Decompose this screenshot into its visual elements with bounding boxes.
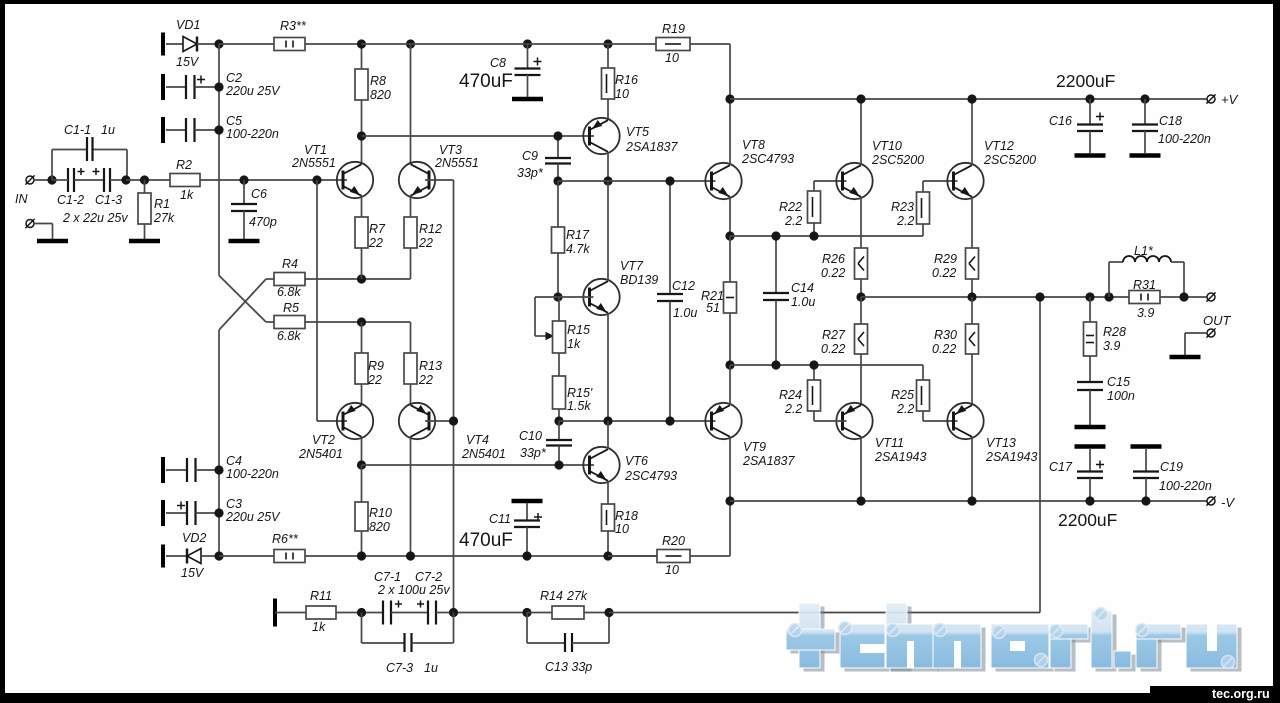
- terminal bar R11: [273, 599, 277, 627]
- node VAS lower: [603, 416, 612, 425]
- svg-text:C1-3: C1-3: [95, 193, 122, 207]
- capacitor C2: [166, 86, 186, 88]
- svg-text:2SC4793: 2SC4793: [741, 152, 794, 166]
- resistor R30: [971, 297, 973, 324]
- upper driver emitter wire: [730, 235, 923, 237]
- resistor R18: [602, 504, 615, 531]
- node VT10 collector: [856, 94, 865, 103]
- node VT12 collector: [967, 94, 976, 103]
- svg-text:VT4: VT4: [466, 433, 489, 447]
- capacitor C12: [669, 181, 671, 294]
- svg-text:VD2: VD2: [182, 531, 206, 545]
- svg-text:R16: R16: [615, 73, 638, 87]
- svg-text:1k: 1k: [567, 337, 581, 351]
- svg-text:10: 10: [615, 87, 629, 101]
- svg-text:R19: R19: [662, 22, 685, 36]
- transistor VT6: [583, 447, 619, 483]
- svg-text:27k: 27k: [566, 589, 588, 603]
- svg-text:820: 820: [370, 88, 391, 102]
- node feedback takeoff: [1035, 292, 1044, 301]
- svg-text:2SC5200: 2SC5200: [871, 153, 924, 167]
- capacitor C19: [1131, 444, 1162, 449]
- svg-text:C7-1: C7-1: [374, 570, 401, 584]
- svg-text:2N5401: 2N5401: [461, 447, 506, 461]
- svg-text:VT10: VT10: [872, 139, 902, 153]
- resistor R10: [361, 465, 363, 502]
- node R15' bottom: [554, 416, 563, 425]
- svg-text:R1: R1: [154, 197, 170, 211]
- wire R8 top: [361, 44, 363, 69]
- svg-text:C12: C12: [672, 279, 695, 293]
- node R18 bottom: [603, 551, 612, 560]
- svg-text:15V: 15V: [176, 55, 200, 69]
- svg-text:VD1: VD1: [176, 18, 200, 32]
- svg-text:R20: R20: [662, 534, 685, 548]
- wire R16 to VT5: [607, 99, 609, 120]
- svg-text:C19: C19: [1160, 460, 1183, 474]
- svg-text:R31: R31: [1133, 278, 1156, 292]
- svg-text:22: 22: [367, 373, 382, 387]
- transistor VT11: [836, 403, 872, 439]
- capacitor C1-3: [103, 168, 105, 192]
- capacitor C7-2: [427, 601, 429, 625]
- svg-text:2SA1837: 2SA1837: [742, 454, 795, 468]
- svg-text:R14: R14: [540, 589, 563, 603]
- wire R13 to VT4: [410, 384, 412, 405]
- wire VT12 emitter: [971, 197, 973, 249]
- svg-text:VT2: VT2: [312, 433, 335, 447]
- node VT2 collector: [357, 460, 366, 469]
- wire VT7 collector: [607, 181, 609, 281]
- node R8 top: [357, 39, 366, 48]
- node C7 left: [357, 608, 366, 617]
- node VT4 collector bottom: [406, 551, 415, 560]
- svg-text:2SA1943: 2SA1943: [985, 450, 1037, 464]
- capacitor C17: [1075, 444, 1106, 449]
- terminal bar C4: [161, 457, 165, 483]
- transistor VT13: [947, 403, 983, 439]
- resistor R14: [552, 606, 584, 619]
- svg-text:2SA1943: 2SA1943: [874, 450, 926, 464]
- terminal bar VD1: [161, 33, 165, 56]
- svg-text:27k: 27k: [153, 211, 175, 225]
- svg-text:R6**: R6**: [272, 532, 299, 546]
- svg-text:C7-3: C7-3: [386, 661, 413, 675]
- node R10 bottom: [357, 551, 366, 560]
- wire VT7 base: [558, 296, 594, 298]
- svg-text:22: 22: [368, 236, 383, 250]
- svg-text:2.2: 2.2: [784, 402, 802, 416]
- svg-text:100n: 100n: [1107, 389, 1135, 403]
- capacitor C1-2: [67, 168, 69, 192]
- wire VT9 collector: [729, 437, 731, 502]
- svg-text:2SC4793: 2SC4793: [624, 469, 677, 483]
- capacitor C13 bridge: [526, 613, 528, 644]
- transistor VT9: [705, 403, 741, 439]
- svg-text:22: 22: [418, 373, 433, 387]
- svg-text:C6: C6: [251, 187, 267, 201]
- svg-text:220u 25V: 220u 25V: [225, 510, 281, 524]
- capacitor C7-3 bridge: [361, 613, 363, 644]
- svg-text:2N5551: 2N5551: [291, 156, 336, 170]
- wire R9 to VT2: [361, 384, 363, 405]
- node VT7 base: [553, 292, 562, 301]
- node input-a: [47, 175, 56, 184]
- node R7 bottom: [357, 274, 366, 283]
- svg-text:R11: R11: [310, 589, 332, 603]
- svg-text:2SA1837: 2SA1837: [625, 140, 678, 154]
- svg-text:2200uF: 2200uF: [1056, 71, 1115, 91]
- wire VT8 collector: [729, 99, 731, 165]
- wire VT3 emitter: [410, 196, 412, 218]
- capacitor C14: [775, 236, 777, 293]
- node C10 bottom: [554, 460, 563, 469]
- transistor VT7: [583, 279, 619, 315]
- svg-text:0.22: 0.22: [821, 266, 845, 280]
- svg-text:1.5k: 1.5k: [567, 399, 591, 413]
- capacitor C1-1 bridge: [51, 150, 53, 181]
- transistor VT5: [583, 118, 619, 154]
- svg-text:VT12: VT12: [984, 139, 1014, 153]
- svg-text:C18: C18: [1159, 114, 1182, 128]
- node R22 bottom: [809, 231, 818, 240]
- ground OUT: [1170, 355, 1201, 360]
- svg-text:100-220n: 100-220n: [1159, 479, 1212, 493]
- wire VT12 collector: [971, 99, 973, 165]
- wire VT4 collector: [410, 437, 412, 557]
- transistor VT12: [947, 163, 983, 199]
- wire VT10 emitter: [860, 197, 862, 249]
- svg-text:R2: R2: [176, 158, 192, 172]
- node R16 top: [603, 39, 612, 48]
- resistor R12: [404, 217, 417, 248]
- svg-text:VT3: VT3: [439, 143, 462, 157]
- +V rail: [730, 98, 1207, 100]
- node VT4 base: [449, 416, 458, 425]
- resistor R24: [813, 365, 815, 380]
- svg-text:1.0u: 1.0u: [791, 295, 815, 309]
- wire input to VT2 base: [316, 180, 318, 421]
- node VAS upper: [603, 176, 612, 185]
- node VT8 collector rail: [725, 94, 734, 103]
- node output rail mid: [967, 292, 976, 301]
- svg-text:2N5551: 2N5551: [434, 156, 479, 170]
- resistor R3: [219, 43, 274, 45]
- trimmer R15 wiper: [535, 296, 558, 298]
- svg-text:C9: C9: [522, 149, 538, 163]
- capacitor C8: [527, 44, 529, 69]
- svg-text:BD139: BD139: [620, 273, 658, 287]
- resistor R5: [274, 316, 305, 329]
- svg-text:100-220n: 100-220n: [226, 467, 279, 481]
- svg-text:C10: C10: [519, 429, 542, 443]
- svg-text:VT7: VT7: [620, 259, 644, 273]
- svg-text:R3**: R3**: [280, 19, 307, 33]
- transistor VT10: [836, 163, 872, 199]
- svg-text:C2: C2: [226, 71, 242, 85]
- svg-text:C11: C11: [489, 512, 511, 526]
- border frame: [0, 0, 1280, 4]
- svg-text:R26: R26: [822, 252, 845, 266]
- svg-text:R5: R5: [283, 301, 299, 315]
- wire diagonal to R5: [219, 276, 266, 323]
- terminal +V: [1207, 95, 1215, 103]
- resistor R26: [855, 248, 868, 279]
- svg-text:2.2: 2.2: [784, 214, 802, 228]
- output rail: [861, 296, 1207, 298]
- wire R8 to VT1: [361, 100, 363, 164]
- terminal bar C5: [161, 117, 165, 143]
- svg-text:R29: R29: [934, 252, 957, 266]
- svg-text:22: 22: [418, 236, 433, 250]
- svg-text:4.7k: 4.7k: [566, 242, 590, 256]
- svg-text:2.2: 2.2: [896, 214, 914, 228]
- wire VT4 base: [425, 420, 454, 422]
- node L1 right: [1179, 292, 1188, 301]
- svg-text:tec.org.ru: tec.org.ru: [1212, 687, 1270, 701]
- svg-text:0.22: 0.22: [932, 266, 956, 280]
- resistor R23: [922, 224, 924, 236]
- wire VT9 emitter: [729, 365, 731, 405]
- svg-text:R9: R9: [368, 359, 384, 373]
- svg-text:10: 10: [665, 51, 679, 65]
- wire R4 to emitter resistors: [305, 278, 411, 280]
- node C14 top: [771, 231, 780, 240]
- svg-text:R30: R30: [934, 328, 957, 342]
- capacitor C15: [1089, 356, 1091, 382]
- ground input: [37, 239, 68, 244]
- capacitor C18: [1140, 94, 1149, 103]
- svg-text:1k: 1k: [180, 188, 194, 202]
- capacitor C10: [558, 421, 560, 440]
- svg-text:OUT: OUT: [1203, 313, 1232, 328]
- terminal bar VD2: [161, 545, 165, 568]
- svg-text:0.22: 0.22: [932, 342, 956, 356]
- svg-text:R12: R12: [419, 222, 442, 236]
- node C11 bottom: [522, 551, 531, 560]
- resistor R15-prime: [558, 353, 560, 376]
- node C9 top: [553, 131, 562, 140]
- resistor R21: [729, 236, 731, 282]
- node C7 mid: [449, 608, 458, 617]
- bias bus upper: [218, 44, 220, 276]
- svg-text:R15: R15: [567, 323, 590, 337]
- node C12 bottom: [665, 416, 674, 425]
- resistor R20: [608, 555, 657, 557]
- resistor R15: [558, 297, 560, 321]
- node input-b: [121, 175, 130, 184]
- svg-text:R15': R15': [567, 386, 593, 400]
- svg-text:C15: C15: [1107, 375, 1130, 389]
- svg-text:R23: R23: [891, 200, 914, 214]
- wire VT10 collector: [860, 99, 862, 165]
- front-end negative rail: [362, 555, 658, 557]
- svg-text:R10: R10: [369, 506, 392, 520]
- wire R19 to +V rail: [690, 43, 730, 45]
- svg-text:R24: R24: [779, 388, 802, 402]
- wire R5 to emitter resistors: [305, 321, 411, 323]
- svg-text:R25: R25: [891, 388, 914, 402]
- terminal IN: [26, 176, 34, 184]
- ground C6: [229, 239, 260, 244]
- resistor R13: [404, 353, 417, 384]
- node C12 top: [665, 176, 674, 185]
- node C14 bottom: [771, 360, 780, 369]
- node bus-bottom: [214, 551, 223, 560]
- transistor VT4: [399, 403, 435, 439]
- node C8 top: [523, 39, 532, 48]
- transistor VT1: [337, 162, 373, 198]
- wire R22 to VT10 base: [814, 180, 847, 182]
- resistor R2: [170, 174, 200, 187]
- resistor R29: [966, 248, 979, 279]
- capacitor C9: [557, 136, 559, 158]
- bias bus lower: [218, 330, 220, 556]
- VAS upper output wire: [558, 180, 716, 182]
- resistor R27: [860, 297, 862, 324]
- svg-text:470uF: 470uF: [459, 71, 513, 92]
- capacitor C4: [166, 469, 187, 471]
- svg-text:2 x 22u 25v: 2 x 22u 25v: [62, 211, 128, 225]
- svg-text:R17: R17: [566, 228, 590, 242]
- svg-text:C16: C16: [1049, 114, 1072, 128]
- resistor R11: [275, 612, 306, 614]
- node R21 bottom: [725, 360, 734, 369]
- capacitor C11: [512, 499, 543, 504]
- wire R20 to -V rail: [690, 555, 730, 557]
- svg-text:C8: C8: [490, 56, 506, 70]
- resistor R25: [922, 365, 924, 380]
- wire VT6 collector: [607, 421, 609, 449]
- svg-text:2N5401: 2N5401: [298, 447, 343, 461]
- svg-text:R28: R28: [1103, 325, 1126, 339]
- svg-text:2.2: 2.2: [896, 402, 914, 416]
- svg-text:C13 33p: C13 33p: [545, 660, 592, 674]
- capacitor C5: [166, 129, 186, 131]
- svg-text:470p: 470p: [249, 215, 277, 229]
- node R1 top: [140, 175, 149, 184]
- resistor R17: [557, 181, 559, 227]
- svg-text:0.22: 0.22: [821, 342, 845, 356]
- terminal -V: [1207, 497, 1215, 505]
- wire top rail: [362, 43, 657, 45]
- diode VD2: [166, 555, 187, 557]
- svg-text:C3: C3: [226, 497, 242, 511]
- wire VT1 emitter: [361, 196, 363, 218]
- wire VT2 collector: [361, 437, 363, 466]
- node C6 top: [239, 175, 248, 184]
- resistor R4: [274, 273, 305, 286]
- svg-text:33p*: 33p*: [517, 166, 544, 180]
- wire VT8 emitter: [729, 197, 731, 237]
- svg-text:470uF: 470uF: [459, 530, 513, 551]
- svg-text:IN: IN: [15, 192, 28, 206]
- svg-text:C4: C4: [226, 454, 242, 468]
- wire VT6 emitter: [607, 481, 609, 504]
- wire diagonal to R4: [219, 279, 266, 330]
- svg-text:820: 820: [369, 520, 390, 534]
- wire VD1 to bus: [197, 43, 219, 45]
- transistor VT2: [337, 403, 373, 439]
- svg-text:C5: C5: [226, 114, 242, 128]
- node VT3 collector top: [406, 39, 415, 48]
- node VT9 collector rail: [725, 496, 734, 505]
- node R14 right: [604, 608, 613, 617]
- resistor R6: [219, 555, 274, 557]
- svg-text:1u: 1u: [101, 123, 115, 137]
- svg-text:6.8k: 6.8k: [277, 329, 301, 343]
- terminal bar C2: [161, 74, 165, 100]
- feedback wire to output: [609, 612, 1040, 614]
- svg-text:R8: R8: [370, 74, 386, 88]
- svg-text:R13: R13: [419, 359, 442, 373]
- svg-text:R27: R27: [822, 328, 846, 342]
- node VT13 collector: [967, 496, 976, 505]
- wire VT3 collector: [410, 44, 412, 164]
- capacitor C6: [243, 180, 245, 204]
- svg-text:2SC5200: 2SC5200: [983, 153, 1036, 167]
- svg-text:+V: +V: [1221, 92, 1239, 107]
- lower driver emitter wire: [730, 364, 923, 366]
- capacitor C7-1: [382, 601, 384, 625]
- node VT8 emitter: [725, 231, 734, 240]
- transistor VT3: [399, 162, 435, 198]
- svg-text:VT6: VT6: [625, 454, 648, 468]
- terminal bar C3: [161, 500, 165, 526]
- resistor R19: [656, 38, 690, 51]
- resistor R31: [1129, 291, 1160, 304]
- svg-text:R4: R4: [282, 257, 298, 271]
- resistor R16: [607, 44, 609, 68]
- svg-text:3.9: 3.9: [1137, 306, 1154, 320]
- svg-text:2 x 100u 25v: 2 x 100u 25v: [377, 583, 450, 597]
- svg-text:100-220n: 100-220n: [226, 127, 279, 141]
- VAS lower output wire: [559, 420, 716, 422]
- resistor R9: [355, 353, 368, 384]
- svg-text:3.9: 3.9: [1103, 339, 1120, 353]
- node VT1 collector: [357, 131, 366, 140]
- svg-text:C7-2: C7-2: [415, 570, 442, 584]
- diode VD1: [166, 43, 183, 45]
- svg-text:6.8k: 6.8k: [277, 285, 301, 299]
- node R14 left: [522, 608, 531, 617]
- svg-text:51: 51: [706, 301, 720, 315]
- wire VAS upper rail: [362, 135, 595, 137]
- svg-text:VT13: VT13: [986, 436, 1016, 450]
- svg-text:100-220n: 100-220n: [1158, 132, 1211, 146]
- svg-text:C14: C14: [791, 281, 814, 295]
- node R28 top: [1085, 292, 1094, 301]
- inductor L1 bridge: [1104, 292, 1113, 301]
- terminal IN ground: [26, 220, 34, 228]
- svg-text:220u 25V: 220u 25V: [225, 84, 281, 98]
- ground R1: [129, 239, 160, 244]
- wire VT3 base to feedback: [425, 179, 454, 181]
- node VT11 collector: [856, 496, 865, 505]
- svg-text:2200uF: 2200uF: [1058, 510, 1117, 530]
- svg-text:L1*: L1*: [1134, 244, 1154, 258]
- svg-text:1.0u: 1.0u: [673, 306, 697, 320]
- svg-text:VT11: VT11: [875, 436, 904, 450]
- svg-text:VT8: VT8: [742, 138, 765, 152]
- resistor R7: [355, 217, 368, 248]
- resistor R1: [144, 180, 146, 193]
- svg-text:R7: R7: [369, 222, 386, 236]
- watermark tehnari.ru: [786, 603, 1242, 672]
- svg-text:VT5: VT5: [626, 125, 649, 139]
- svg-text:R22: R22: [779, 200, 802, 214]
- resistor R22: [813, 181, 815, 191]
